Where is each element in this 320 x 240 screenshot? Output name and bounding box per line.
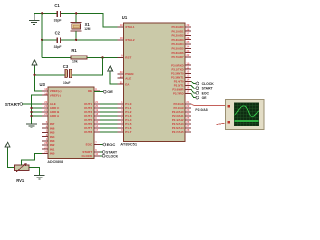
svg-text:VREF(-): VREF(-) — [50, 93, 61, 97]
U1 pin 24 (P2.3/A11) right — [172, 112, 191, 118]
ground (RV1) — [34, 175, 45, 179]
svg-text:P3.7/RD: P3.7/RD — [173, 92, 184, 96]
power VCC arrow (RV1) — [5, 142, 10, 149]
U3 pin 23 (ADD C) left — [42, 104, 60, 110]
wire data bus OUT7 to P1.6 — [100, 127, 118, 129]
U3 pin 19 (OUT3) right — [84, 108, 100, 114]
U3 pin 5 (IN7) left — [42, 120, 55, 126]
U3 pin 12 (VREF(+)) left — [42, 87, 61, 93]
U1 pin 30 (ALE) left — [118, 74, 132, 80]
microcontroller U1 AT89C51 body — [124, 23, 186, 141]
svg-text:ADC0808: ADC0808 — [47, 160, 63, 164]
X1 reference label — [85, 22, 91, 27]
U3 pin 9 (OE) right — [88, 87, 100, 93]
terminal CLOCK (U1 side) — [191, 81, 214, 86]
svg-text:START: START — [202, 87, 214, 91]
power VCC arrow (reset) — [32, 60, 37, 67]
U3 pin 16 (VREF(-)) left — [42, 91, 61, 97]
wire RV1 wiper to IN0 — [22, 153, 43, 164]
wire ADD B tie — [32, 111, 43, 113]
U3 pin 6 (START) right — [82, 148, 99, 154]
U1 pin 11 (P3.1/TXD) right — [171, 65, 191, 71]
wire ADD C tie — [32, 107, 43, 109]
node junction C2 — [41, 39, 43, 41]
wire VCC to EA pin — [110, 73, 117, 85]
svg-text:XTAL2: XTAL2 — [125, 38, 135, 42]
wire C3 to VCC column — [35, 74, 65, 76]
U1 pin 35 (P0.4/AD4) right — [171, 40, 191, 46]
U1 pin 27 (P2.6/A14) right — [172, 124, 191, 130]
oscilloscope screen — [235, 103, 259, 126]
svg-text:10k: 10k — [72, 60, 78, 64]
U3 pin 14 (OUT7) right — [84, 124, 100, 130]
U1 reference label — [122, 15, 128, 20]
U3 pin 8 (OUT5) right — [84, 116, 100, 122]
C2 value 33pF — [54, 45, 62, 49]
U1 pin 23 (P2.2/A10) right — [172, 108, 191, 114]
terminal EOC (U3) — [100, 142, 116, 147]
wire data bus OUT1 to P1.0 — [100, 103, 118, 105]
U3 pin 15 (OUT6) right — [84, 120, 100, 126]
U1 pin 2 (P1.1) left — [118, 104, 132, 110]
wire P2.0 to scope channel A — [191, 104, 227, 106]
wire ground column to R1 — [42, 56, 71, 58]
U1 pin 34 (P0.5/AD5) right — [171, 45, 191, 51]
U3 pin 18 (OUT4) right — [84, 112, 100, 118]
U1 pin 3 (P1.2) left — [118, 108, 132, 114]
U1 pin 29 (PSEN) left — [118, 70, 134, 76]
wire data bus OUT4 to P1.3 — [100, 115, 118, 117]
node ADD B — [30, 111, 32, 113]
U1 pin 21 (P2.0/A8) right — [173, 100, 191, 106]
svg-text:P2.0/A8: P2.0/A8 — [195, 108, 207, 112]
ground (top-left) — [29, 13, 40, 24]
U1 pin 12 (P3.2/INT0) right — [171, 70, 191, 76]
U1 pin 25 (P2.4/A12) right — [172, 116, 191, 122]
svg-text:EOC: EOC — [107, 142, 116, 147]
U3 pin 2 (IN4) left — [42, 133, 55, 139]
svg-text:CLOCK: CLOCK — [106, 154, 119, 158]
capacitor C2 — [57, 37, 60, 43]
wire RST junction down to C3 net — [72, 57, 103, 74]
C1 reference label — [54, 3, 60, 8]
U3 pin 1 (IN3) left — [42, 137, 55, 143]
U1 pin 22 (P2.1/A9) right — [173, 104, 191, 110]
wire VCC to RV1 left — [8, 149, 15, 168]
U3 pin 27 (IN1) left — [42, 145, 55, 151]
svg-text:AT89C51: AT89C51 — [120, 142, 138, 147]
svg-text:CLOCK: CLOCK — [202, 82, 215, 86]
svg-text:START: START — [5, 102, 20, 107]
R1 value 10k — [72, 60, 78, 64]
terminal OE (U1 side) — [191, 93, 207, 100]
U1 pin 16 (P3.6/WR) right — [172, 86, 191, 92]
node RST junction — [101, 56, 103, 58]
svg-text:RV1: RV1 — [16, 178, 25, 183]
C3 reference label — [63, 64, 69, 69]
wire RV1 right to ground — [29, 168, 40, 176]
X1 value 12MHz — [84, 27, 91, 31]
U1 pin 7 (P1.6) left — [118, 124, 132, 130]
U1 pin 15 (P3.5/T1) right — [174, 82, 191, 88]
wire START terminal to ALE — [23, 103, 43, 105]
U3 pin 22 (ALE) left — [42, 100, 56, 106]
terminal OE (U3) — [94, 89, 113, 94]
wire C1 to XTAL1 — [61, 13, 117, 26]
U1 pin 37 (P0.2/AD2) right — [171, 32, 191, 38]
U1 pin 28 (P2.7/A15) right — [172, 128, 191, 134]
svg-text:R1: R1 — [71, 48, 77, 53]
power VCC arrow (EA) — [108, 66, 113, 73]
U3 pin 28 (IN2) left — [42, 141, 55, 147]
U3 pin 10 (CLOCK) right — [82, 152, 100, 158]
U1 pin 4 (P1.3) left — [118, 112, 132, 118]
C2 reference label — [55, 31, 61, 36]
svg-text:CLOCK: CLOCK — [82, 154, 93, 158]
U1 pin 8 (P1.7) left — [118, 128, 132, 134]
svg-text:C2: C2 — [55, 31, 61, 36]
wire data bus OUT2 to P1.1 — [100, 107, 118, 109]
net label on scope wire — [195, 108, 207, 112]
U1 pin 31 (EA) left — [118, 80, 131, 86]
wire data bus OUT5 to P1.4 — [100, 119, 118, 121]
svg-text:OE: OE — [88, 89, 92, 93]
scope sine trace — [235, 106, 259, 117]
C1 value 33pF — [54, 18, 62, 22]
svg-text:U3: U3 — [40, 82, 46, 87]
terminal EOC (U1 side) — [191, 89, 209, 95]
U1 pin 17 (P3.7/RD) right — [173, 90, 191, 96]
svg-text:33pF: 33pF — [54, 45, 62, 49]
node C3/VCC junction — [33, 74, 35, 76]
node junction C1/ground column — [41, 12, 43, 14]
wire VREF- to ground column — [32, 95, 43, 124]
U1 pin 38 (P0.1/AD1) right — [171, 27, 191, 33]
ADC U3 ADC0808 body — [48, 87, 94, 159]
svg-text:OUT8: OUT8 — [84, 130, 92, 134]
wire data bus OUT8 to P1.7 — [100, 131, 118, 133]
svg-text:RST: RST — [125, 56, 131, 60]
U1 pin 18 (XTAL2) left — [118, 36, 135, 42]
R1 reference label — [71, 48, 77, 53]
svg-text:U1: U1 — [122, 15, 128, 20]
U3 pin 3 (IN5) left — [42, 129, 55, 135]
svg-text:EOC: EOC — [202, 91, 210, 95]
node ADD A — [30, 115, 32, 117]
svg-text:P2.7/A15: P2.7/A15 — [172, 130, 184, 134]
wire crystal top stub — [75, 13, 77, 22]
wire ADD A tie — [32, 115, 43, 117]
U3 pin 4 (IN6) left — [42, 124, 55, 130]
node crystal bottom — [75, 39, 77, 41]
wire crystal bottom stub — [75, 31, 77, 40]
U1 pin 1 (P1.0) left — [118, 100, 132, 106]
svg-text:OE: OE — [202, 96, 208, 100]
crystal X1 — [71, 22, 82, 31]
U3 pin 17 (OUT8) right — [84, 128, 100, 134]
U3 pin 26 (IN0) left — [42, 150, 55, 156]
terminal CLOCK (U3) — [100, 154, 119, 158]
U3 pin 20 (OUT2) right — [84, 104, 100, 110]
svg-text:XTAL1: XTAL1 — [125, 25, 135, 29]
U1 pin 14 (P3.4/T0) right — [174, 78, 191, 84]
ground (U3 address) — [26, 124, 37, 128]
U1 pin 6 (P1.5) left — [118, 120, 132, 126]
svg-text:OE: OE — [107, 89, 113, 94]
terminal START (input) — [5, 102, 23, 107]
U1 pin 13 (P3.3/INT1) right — [171, 74, 191, 80]
U3 pin 25 (ADD A) left — [42, 112, 60, 118]
U1 pin 26 (P2.5/A13) right — [172, 120, 191, 126]
scope baseline trace — [235, 120, 259, 122]
capacitor C3 — [65, 69, 72, 78]
potentiometer RV1 — [14, 163, 28, 171]
wire VCC column to VREF+ — [35, 67, 43, 92]
wire ground column vertical — [41, 13, 43, 57]
capacitor C1 — [57, 11, 60, 17]
U3 pin 24 (ADD B) left — [42, 108, 60, 114]
oscilloscope body — [225, 100, 264, 130]
svg-text:C1: C1 — [54, 3, 60, 8]
svg-text:10uF: 10uF — [63, 81, 70, 85]
C3 value 10uF — [63, 81, 70, 85]
wire scope channel B stub — [217, 123, 228, 125]
svg-text:P1.7: P1.7 — [125, 130, 132, 134]
svg-text:P0.7/AD7: P0.7/AD7 — [171, 55, 184, 59]
svg-text:C3: C3 — [63, 64, 69, 69]
node crystal top — [75, 12, 77, 14]
svg-text:EOC: EOC — [86, 143, 93, 147]
svg-text:IN0: IN0 — [50, 152, 55, 156]
U1 pin 32 (P0.7/AD7) right — [171, 53, 191, 59]
svg-text:ALE: ALE — [125, 76, 131, 80]
wire C2 to XTAL2 — [61, 39, 117, 41]
terminal START (U1 side) — [191, 85, 214, 90]
node ADD C — [30, 107, 32, 109]
U1 pin 36 (P0.3/AD3) right — [171, 36, 191, 42]
U1 pin 10 (P3.0/RXD) right — [171, 61, 191, 67]
U1 value label AT89C51 — [120, 142, 138, 147]
U3 reference label — [40, 82, 46, 87]
RV1 reference label — [16, 178, 25, 183]
U1 pin 9 (RST) left — [118, 54, 132, 60]
wire data bus OUT3 to P1.2 — [100, 111, 118, 113]
U3 value label ADC0808 — [47, 160, 63, 164]
terminal START (U3) — [100, 151, 118, 155]
U1 pin 39 (P0.0/AD0) right — [171, 23, 191, 29]
U1 pin 5 (P1.4) left — [118, 116, 132, 122]
wire R1 to RST — [87, 56, 118, 58]
U1 pin 33 (P0.6/AD6) right — [171, 49, 191, 55]
svg-text:ADD A: ADD A — [50, 114, 60, 118]
wire C2 left — [42, 39, 56, 41]
svg-text:33pF: 33pF — [54, 18, 62, 22]
U3 pin 21 (OUT1) right — [84, 100, 100, 106]
resistor R1 — [71, 56, 87, 59]
wire data bus OUT6 to P1.5 — [100, 123, 118, 125]
U3 pin 7 (EOC) right — [86, 141, 100, 147]
svg-text:12M: 12M — [84, 27, 91, 31]
U1 pin 19 (XTAL1) left — [118, 23, 135, 29]
wire ground to C1 — [34, 12, 56, 14]
